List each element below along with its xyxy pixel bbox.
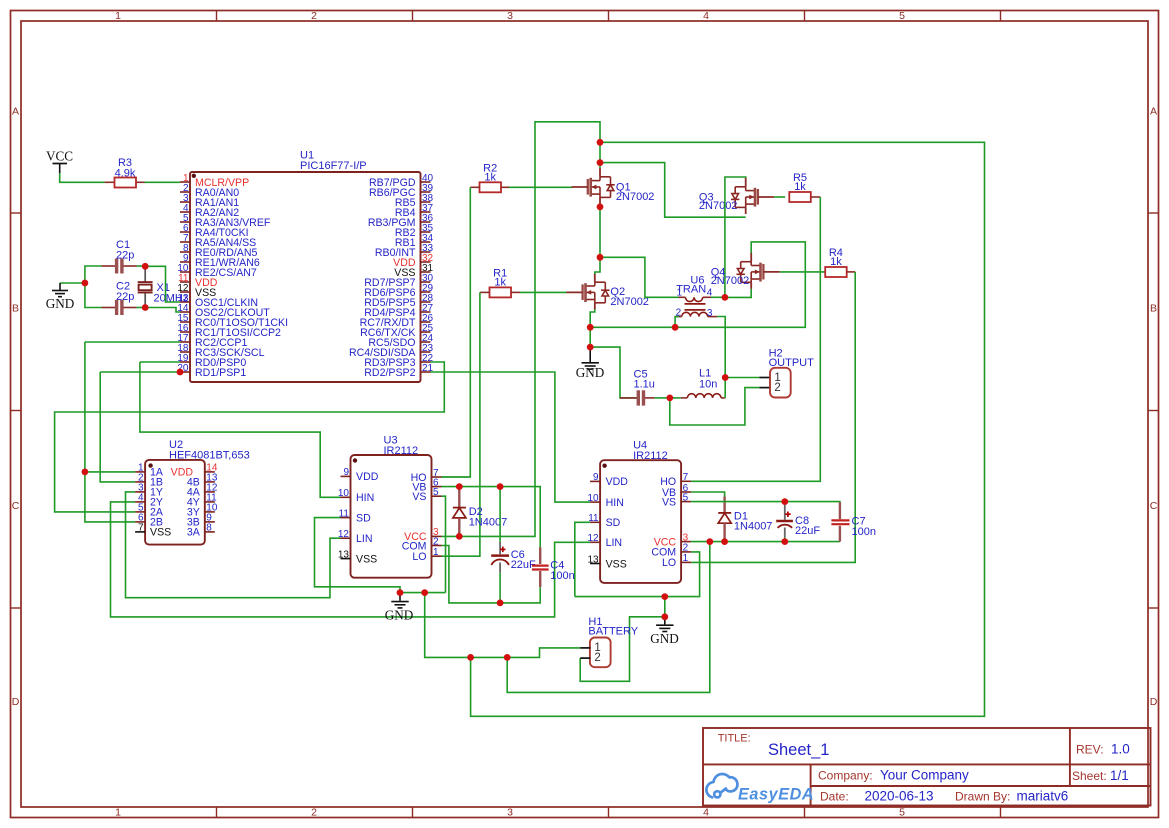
ic U4 IR2112 body xyxy=(600,460,681,583)
U1 pin 40 RB7/PGD xyxy=(421,181,431,183)
wire to U2 1A xyxy=(85,471,135,473)
svg-text:1: 1 xyxy=(115,10,121,22)
U1 pin 14 OSC2/CLKOUT xyxy=(180,311,190,313)
junction U1 pin20 xyxy=(177,369,184,376)
wire big right loop xyxy=(471,142,985,716)
U1 pin 16 RC1/T1OSI/CCP2 xyxy=(180,331,190,333)
wire U3 VS down xyxy=(442,496,446,592)
wire R1 to U3 LO xyxy=(442,292,480,556)
U1 pin 20 RD1/PSP1 xyxy=(180,371,190,373)
wire L1 to node xyxy=(724,378,726,398)
wire R4 to U4 LO xyxy=(691,272,855,563)
diode D1 1N4007 xyxy=(723,497,725,513)
U4 pin 13 VSS xyxy=(590,563,600,565)
svg-text:2: 2 xyxy=(311,807,317,819)
U2 pin 2 1B xyxy=(135,481,145,483)
svg-text:1: 1 xyxy=(683,553,689,564)
svg-text:IR2112: IR2112 xyxy=(384,445,419,457)
U1 pin 4 RA2/AN2 xyxy=(180,211,190,213)
resistor R1 xyxy=(490,287,512,297)
U1 pin 27 RD4/PSP4 xyxy=(421,311,431,313)
wire U3 HO out xyxy=(442,476,471,478)
U4 pin 11 SD xyxy=(590,521,600,523)
U2 pin 11 4Y xyxy=(205,501,215,503)
U1 pin 18 RC3/SCK/SCL xyxy=(180,351,190,353)
wire ground line to U4 COM xyxy=(575,552,700,597)
U3 pin 5 VS xyxy=(432,495,442,497)
U2 pin 4 2Y xyxy=(135,501,145,503)
junction Q1 drain A xyxy=(597,139,604,146)
wire R5 right lead xyxy=(811,196,821,198)
U3 pin 1 LO xyxy=(432,555,442,557)
U1 pin 33 RB0/INT xyxy=(421,251,431,253)
svg-text:VCC: VCC xyxy=(46,149,73,164)
svg-text:REV:: REV: xyxy=(1076,743,1104,757)
svg-text:10: 10 xyxy=(587,493,599,504)
U3 pin 10 HIN xyxy=(341,496,351,498)
EasyEDA logo xyxy=(706,774,737,797)
svg-text:Sheet_1: Sheet_1 xyxy=(768,741,829,759)
svg-text:TITLE:: TITLE: xyxy=(718,733,751,745)
U2 pin 6 2B xyxy=(135,521,145,523)
svg-text:2N7002: 2N7002 xyxy=(616,191,655,203)
wire R2 to Q1 gate xyxy=(509,186,572,188)
junction TRAN pin2 xyxy=(672,324,679,331)
svg-text:22p: 22p xyxy=(116,291,134,303)
svg-text:13: 13 xyxy=(587,554,599,565)
svg-text:4.9k: 4.9k xyxy=(115,168,136,180)
svg-text:5: 5 xyxy=(433,487,439,498)
U1 pin 13 OSC1/CLKIN xyxy=(180,301,190,303)
wire ground to H1 pin1 xyxy=(425,593,581,658)
svg-text:1.0: 1.0 xyxy=(1111,742,1130,757)
svg-text:HEF4081BT,653: HEF4081BT,653 xyxy=(169,450,250,462)
title block outer xyxy=(703,728,1151,806)
svg-text:1k: 1k xyxy=(484,171,496,183)
wire R2 left lead xyxy=(470,186,479,188)
capacitor C8 22uF xyxy=(784,502,786,520)
svg-text:LO: LO xyxy=(662,557,676,569)
svg-text:Sheet:: Sheet: xyxy=(1072,769,1107,783)
U1 pin 38 RB5 xyxy=(421,201,431,203)
U4 pin 2 COM xyxy=(681,551,691,553)
svg-text:A: A xyxy=(12,106,19,118)
resistor R4 xyxy=(825,267,847,277)
U1 pin 6 RA4/T0CKI xyxy=(180,231,190,233)
svg-text:2: 2 xyxy=(433,536,439,547)
svg-text:8: 8 xyxy=(206,523,212,534)
wire R2 to U3 HO xyxy=(442,187,471,477)
wire Q4 gate to R4 xyxy=(780,271,826,273)
junction C6 top xyxy=(497,483,504,490)
svg-text:5: 5 xyxy=(899,10,905,22)
svg-text:2020-06-13: 2020-06-13 xyxy=(865,788,934,803)
svg-text:1N4007: 1N4007 xyxy=(734,521,773,533)
svg-text:13: 13 xyxy=(338,549,350,560)
wire U1 pin20 net xyxy=(100,371,180,373)
svg-text:Date:: Date: xyxy=(820,789,849,803)
svg-text:100n: 100n xyxy=(852,526,876,538)
svg-text:3: 3 xyxy=(707,308,713,319)
U1 pin 7 RA5/AN4/SS xyxy=(180,241,190,243)
svg-text:12: 12 xyxy=(587,533,599,544)
capacitor C6 22uF xyxy=(499,487,501,542)
wire TRAN pin4 link xyxy=(711,296,725,298)
svg-text:EasyEDA: EasyEDA xyxy=(738,786,814,804)
svg-text:1.1u: 1.1u xyxy=(634,378,655,390)
svg-text:2: 2 xyxy=(594,652,600,664)
wire VCC to R3 xyxy=(60,173,105,182)
svg-text:3: 3 xyxy=(507,10,513,22)
svg-text:VS: VS xyxy=(412,491,426,503)
U1 pin 23 RC4/SDI/SDA xyxy=(421,351,431,353)
svg-text:SD: SD xyxy=(606,517,621,529)
wire Q3 gate to R5 xyxy=(774,196,785,198)
wire U4 VS line to C7 top xyxy=(691,502,840,507)
resistor R5 xyxy=(789,192,811,202)
wire X1 to OSC1 xyxy=(145,266,180,302)
U1 pin 30 RD7/PSP7 xyxy=(421,281,431,283)
U1 pin 28 RD5/PSP5 xyxy=(421,301,431,303)
svg-text:5: 5 xyxy=(683,492,689,503)
wire GND3 link xyxy=(400,592,425,594)
U3 pin 3 VCC xyxy=(432,535,442,537)
svg-text:5: 5 xyxy=(899,807,905,819)
U1 pin 11 VDD xyxy=(180,281,190,283)
U2 pin 10 3Y xyxy=(205,511,215,513)
transistor Q1 2N7002 xyxy=(591,177,615,198)
svg-text:GND: GND xyxy=(46,296,75,311)
junction Q2 source xyxy=(587,324,594,331)
U2 pin 1 1A xyxy=(135,471,145,473)
U4 pin 5 VS xyxy=(681,501,691,503)
svg-text:1N4007: 1N4007 xyxy=(469,517,508,529)
svg-text:2N7002: 2N7002 xyxy=(699,200,738,212)
wire U2 2Y to U4 LIN xyxy=(111,502,591,617)
crystal X1 20MHz xyxy=(144,266,146,307)
junction GND3 right xyxy=(421,589,428,596)
junction C5-L1 xyxy=(666,395,673,402)
U3 pin 2 COM xyxy=(432,545,442,547)
wire Q3 drain to TRAN pin4 xyxy=(725,177,746,297)
svg-text:GND: GND xyxy=(650,631,679,646)
U1 pin 2 RA0/AN0 xyxy=(180,191,190,193)
svg-text:VSS: VSS xyxy=(356,553,377,565)
U2 pin 12 4A xyxy=(205,491,215,493)
svg-text:Drawn By:: Drawn By: xyxy=(955,789,1010,803)
junction C6 bottom xyxy=(497,600,504,607)
svg-text:3A: 3A xyxy=(187,527,201,539)
U1 pin 29 RD6/PSP6 xyxy=(421,291,431,293)
junction C8 bottom xyxy=(781,538,788,545)
wire node to H2 pin1 xyxy=(725,377,759,379)
U3 pin 13 VSS xyxy=(341,558,351,560)
U1 pin 12 VSS xyxy=(180,291,190,293)
wire GND branch xyxy=(60,282,85,284)
U1 pin 17 RC2/CCP1 xyxy=(180,341,190,343)
svg-text:A: A xyxy=(1150,106,1157,118)
ic U1 PIC16F77-I/P body xyxy=(190,172,421,382)
U1 pin 26 RC7/RX/DT xyxy=(421,321,431,323)
junction U2 1A xyxy=(82,469,89,476)
svg-text:2: 2 xyxy=(774,382,780,394)
U1 pin 31 VSS xyxy=(421,271,431,273)
junction D2 top xyxy=(456,483,463,490)
junction X1 top xyxy=(142,263,149,270)
wire Q2 node to TRAN pin1 xyxy=(600,257,679,297)
U1 pin 5 RA3/AN3/VREF xyxy=(180,221,190,223)
resistor R3 xyxy=(105,181,115,183)
U2 pin 9 3B xyxy=(205,521,215,523)
wire U3 COM to C4 bottom xyxy=(442,546,541,603)
wire U1 pin17 net xyxy=(85,341,180,343)
wire C1 to X1 node xyxy=(137,265,146,267)
wire U4 VCC line to C7 bottom xyxy=(691,541,840,543)
wire X1 to OSC2 xyxy=(145,308,180,313)
wire Q4 source to TRAN pin4 xyxy=(725,289,751,298)
wire Q1 drain to Q3 source xyxy=(600,163,746,218)
junction X1 bottom xyxy=(142,304,149,311)
ground GND under Q2 xyxy=(582,347,599,369)
U1 pin 37 RB4 xyxy=(421,211,431,213)
svg-text:D: D xyxy=(12,696,20,708)
ic U3 IR2112 body xyxy=(351,455,432,578)
svg-text:D: D xyxy=(1150,696,1158,708)
U1 pin 39 RB6/PGC xyxy=(421,191,431,193)
svg-text:9: 9 xyxy=(343,467,349,478)
U4 pin 9 VDD xyxy=(590,480,600,482)
U1 pin 3 RA1/AN1 xyxy=(180,201,190,203)
svg-text:100n: 100n xyxy=(550,570,574,582)
svg-text:IR2112: IR2112 xyxy=(633,450,668,462)
U1 pin 35 RB2 xyxy=(421,231,431,233)
svg-text:GND: GND xyxy=(576,365,605,380)
wire TRAN pin2 down xyxy=(675,317,679,328)
junction C8 top xyxy=(781,498,788,505)
U1 pin 25 RC6/TX/CK xyxy=(421,331,431,333)
junction Q2 drain node xyxy=(597,254,604,261)
svg-text:C: C xyxy=(12,500,20,512)
wire bottom B to U4 VCC xyxy=(507,542,710,693)
svg-text:PIC16F77-I/P: PIC16F77-I/P xyxy=(300,160,367,172)
junction Q1 source xyxy=(597,204,604,211)
junction TRAN pin4 xyxy=(722,294,729,301)
junction L1 right xyxy=(722,374,729,381)
wire TRAN pin3 to L1 node xyxy=(717,317,725,378)
U2 pin 14 VDD xyxy=(205,471,215,473)
svg-text:7: 7 xyxy=(683,472,689,483)
svg-text:B: B xyxy=(12,303,19,315)
junction GND4 xyxy=(661,613,668,620)
U4 pin 10 HIN xyxy=(590,501,600,503)
wire U1 pin21 to U4 HIN xyxy=(431,372,591,502)
svg-text:10n: 10n xyxy=(699,378,717,390)
transistor Q4 2N7002 xyxy=(737,262,761,283)
U3 pin 6 VB xyxy=(432,486,442,488)
U1 pin 1 MCLR/VPP xyxy=(180,181,190,183)
capacitor C7 100n xyxy=(839,502,841,519)
wire C5 to L1 node xyxy=(655,397,670,399)
U1 pin 22 RD3/PSP3 xyxy=(421,361,431,363)
svg-text:22uF: 22uF xyxy=(795,525,820,537)
svg-text:LIN: LIN xyxy=(356,533,373,545)
junction GND4 top xyxy=(661,593,668,600)
diode D2 1N4007 xyxy=(458,487,460,508)
U2 pin 13 4B xyxy=(205,481,215,483)
ground GND top-left xyxy=(52,283,68,297)
wire Q1 source to Q2 drain xyxy=(599,204,601,257)
svg-text:mariatv6: mariatv6 xyxy=(1017,788,1069,803)
svg-text:2: 2 xyxy=(683,543,689,554)
U2 pin 7 VSS xyxy=(135,531,145,533)
ground GND under U4 xyxy=(656,617,673,632)
svg-text:C: C xyxy=(1150,500,1158,512)
wire GND4 to H1 pin2 xyxy=(580,617,665,682)
wire C2 to X1 node xyxy=(137,307,146,309)
svg-text:RD1/PSP1: RD1/PSP1 xyxy=(195,367,246,379)
transistor Q2 2N7002 xyxy=(586,282,610,303)
svg-text:HIN: HIN xyxy=(606,497,624,509)
U3 pin 12 LIN xyxy=(341,537,351,539)
wire R5 to U4 HO xyxy=(691,197,820,481)
transistor Q3 2N7002 xyxy=(731,187,755,208)
U4 pin 6 VB xyxy=(681,491,691,493)
U1 pin 24 RC5/SDO xyxy=(421,341,431,343)
wire U1 pin22 to U2 2A xyxy=(55,362,445,512)
svg-text:9: 9 xyxy=(593,472,599,483)
wire R2 right lead xyxy=(501,186,509,188)
U1 pin 34 RB1 xyxy=(421,241,431,243)
wire U2 1Y to U3 LIN xyxy=(126,492,341,598)
wire R1 to Q2 gate xyxy=(520,291,567,293)
svg-text:4: 4 xyxy=(703,807,709,819)
junction Q1 drain B xyxy=(597,159,604,166)
svg-text:2N7002: 2N7002 xyxy=(610,296,649,308)
wire U3 VB line to C4 top xyxy=(442,487,541,548)
svg-text:10: 10 xyxy=(338,488,350,499)
wire R1 left lead xyxy=(480,291,490,293)
wire GND4 drop xyxy=(664,597,666,617)
svg-text:3: 3 xyxy=(507,807,513,819)
wire TRAN2 loop to Q4 drain xyxy=(590,242,805,327)
svg-text:4: 4 xyxy=(703,10,709,22)
wire VS to GND3 xyxy=(425,592,446,594)
junction bottom A xyxy=(467,654,474,661)
wire R4 right lead xyxy=(847,271,856,273)
svg-text:1k: 1k xyxy=(794,181,806,193)
U2 pin 8 3A xyxy=(205,531,215,533)
junction VCC-A xyxy=(706,538,713,545)
svg-text:1: 1 xyxy=(115,807,121,819)
svg-text:Company:: Company: xyxy=(818,769,873,783)
U1 pin 8 RE0/RD/AN5 xyxy=(180,251,190,253)
svg-text:LO: LO xyxy=(412,551,426,563)
junction D2 bottom xyxy=(456,533,463,540)
junction D1 bottom xyxy=(721,538,728,545)
ic U2 HEF4081BT body xyxy=(145,460,205,545)
junction C1C2-GND xyxy=(82,280,89,287)
svg-text:1/1: 1/1 xyxy=(1110,768,1129,783)
wire C5 node to H2 pin2 xyxy=(670,388,760,425)
wire R1 right lead xyxy=(511,291,520,293)
svg-text:VDD: VDD xyxy=(356,471,379,483)
ground GND under U3 xyxy=(391,593,408,608)
U2 pin 3 1Y xyxy=(135,491,145,493)
svg-text:VDD: VDD xyxy=(606,476,629,488)
wire pin17 net vertical to U2 2B xyxy=(85,342,135,522)
svg-text:2N7002: 2N7002 xyxy=(711,275,750,287)
U1 pin 19 RD0/PSP0 xyxy=(180,361,190,363)
U3 pin 9 VDD xyxy=(341,475,351,477)
svg-text:1k: 1k xyxy=(830,256,842,268)
svg-text:GND: GND xyxy=(385,608,414,623)
svg-text:RD2/PSP2: RD2/PSP2 xyxy=(364,367,415,379)
wire Q1 drain rail to U3 VCC xyxy=(459,122,600,537)
svg-text:LIN: LIN xyxy=(606,537,623,549)
wire pin20 to U2 1B xyxy=(100,372,135,482)
junction bottom B xyxy=(504,654,511,661)
wire U4 SD to ground line xyxy=(575,522,590,596)
wire U3 SD to ground xyxy=(315,518,401,593)
svg-text:12: 12 xyxy=(338,529,350,540)
wire Q2 source down xyxy=(590,309,595,347)
resistor R2 xyxy=(480,182,502,192)
wire VCC line to U3 pin3 xyxy=(442,535,460,537)
U2 pin 5 2A xyxy=(135,511,145,513)
U4 pin 3 VCC xyxy=(681,541,691,543)
svg-text:SD: SD xyxy=(356,512,371,524)
U4 pin 12 LIN xyxy=(590,541,600,543)
capacitor C4 100n xyxy=(539,547,541,564)
junction GND2 node xyxy=(587,344,594,351)
U1 pin 10 RE2/CS/AN7 xyxy=(180,271,190,273)
U3 pin 11 SD xyxy=(341,517,351,519)
wire Q2 drain jog xyxy=(595,257,600,274)
svg-text:VSS: VSS xyxy=(606,558,627,570)
U3 pin 7 HO xyxy=(432,476,442,478)
wire GND node to C5 xyxy=(590,347,637,398)
wire R3 to U1 pin1 xyxy=(145,181,181,183)
svg-text:B: B xyxy=(1150,303,1157,315)
svg-text:22p: 22p xyxy=(116,249,134,261)
U1 pin 32 VDD xyxy=(421,261,431,263)
U4 pin 1 LO xyxy=(681,561,691,563)
svg-text:VSS: VSS xyxy=(150,527,171,539)
U1 pin 21 RD2/PSP2 xyxy=(421,371,431,373)
svg-text:Your Company: Your Company xyxy=(880,768,969,783)
svg-text:1: 1 xyxy=(433,547,439,558)
junction GND3 xyxy=(397,589,404,596)
wire U1 pin19 net xyxy=(140,361,180,363)
svg-text:1k: 1k xyxy=(494,276,506,288)
wire C1-C2 left link xyxy=(85,266,102,308)
wire pin19 to U3 HIN xyxy=(140,362,341,497)
U4 pin 7 HO xyxy=(681,480,691,482)
svg-text:7: 7 xyxy=(138,523,144,534)
svg-text:HIN: HIN xyxy=(356,492,374,504)
U1 pin 36 RB3/PGM xyxy=(421,221,431,223)
U1 pin 15 RC0/T1OSO/T1CKI xyxy=(180,321,190,323)
svg-text:2: 2 xyxy=(311,10,317,22)
svg-text:1: 1 xyxy=(677,288,683,299)
wire U4 VB to D1 xyxy=(691,492,725,497)
svg-text:BATTERY: BATTERY xyxy=(588,626,638,638)
svg-text:VS: VS xyxy=(662,496,676,508)
U1 pin 9 RE1/WR/AN6 xyxy=(180,261,190,263)
